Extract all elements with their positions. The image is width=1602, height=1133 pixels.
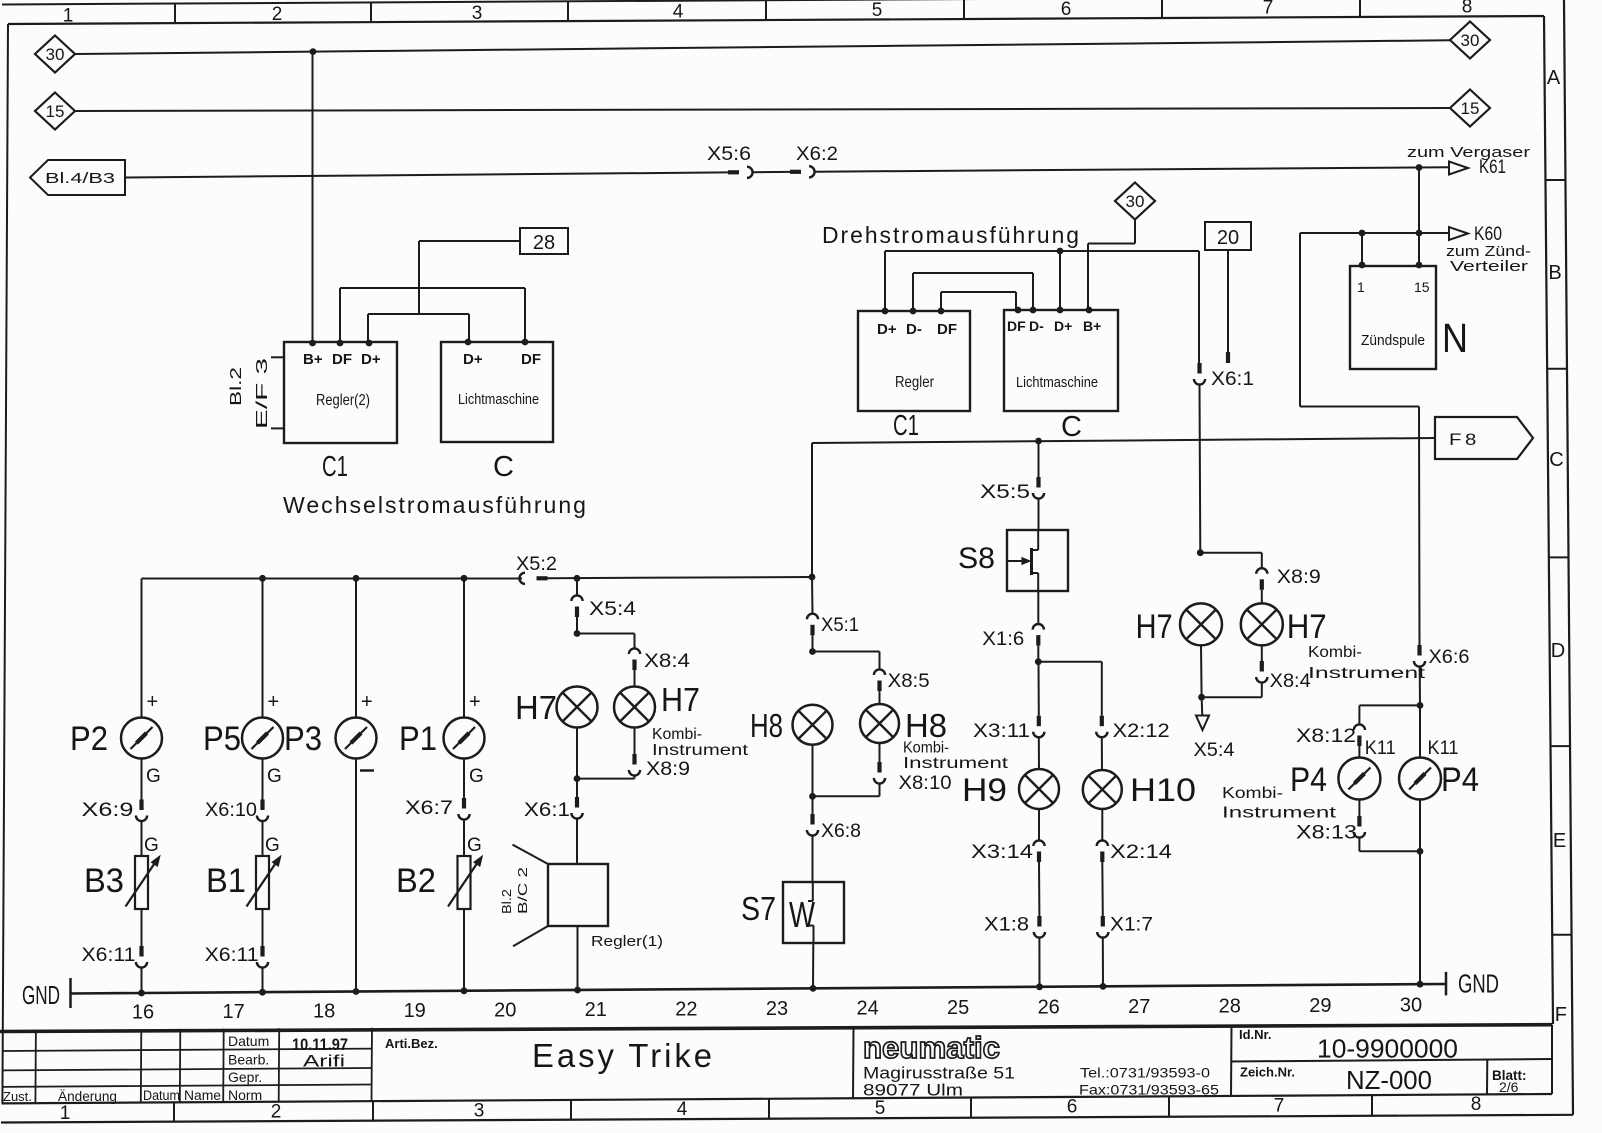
svg-text:F8: F8 bbox=[1449, 430, 1480, 449]
svg-text:X2:12: X2:12 bbox=[1113, 721, 1170, 742]
svg-text:Bl.2: Bl.2 bbox=[228, 367, 245, 406]
svg-text:7: 7 bbox=[1274, 1095, 1285, 1116]
svg-text:4: 4 bbox=[673, 2, 684, 23]
svg-text:X8:4: X8:4 bbox=[644, 651, 690, 672]
svg-text:Bearb.: Bearb. bbox=[228, 1052, 269, 1068]
svg-text:16: 16 bbox=[132, 1002, 154, 1024]
svg-text:19: 19 bbox=[404, 1000, 426, 1022]
svg-text:Instrument: Instrument bbox=[903, 755, 1009, 772]
svg-text:Zust.: Zust. bbox=[3, 1089, 32, 1104]
svg-text:X8:9: X8:9 bbox=[1277, 567, 1321, 588]
svg-text:H9: H9 bbox=[962, 772, 1007, 808]
svg-text:B2: B2 bbox=[396, 862, 436, 900]
svg-text:X8:10: X8:10 bbox=[899, 773, 952, 794]
svg-text:10-9900000: 10-9900000 bbox=[1317, 1034, 1458, 1064]
svg-text:X6:1: X6:1 bbox=[1211, 369, 1254, 390]
svg-text:D-: D- bbox=[1029, 318, 1044, 334]
svg-text:X6:2: X6:2 bbox=[796, 144, 838, 165]
svg-text:B3: B3 bbox=[84, 862, 124, 900]
svg-text:B/C 2: B/C 2 bbox=[515, 867, 530, 914]
svg-text:23: 23 bbox=[766, 998, 788, 1020]
svg-text:1: 1 bbox=[63, 6, 74, 27]
svg-text:26: 26 bbox=[1038, 997, 1060, 1019]
svg-text:G: G bbox=[144, 835, 159, 856]
svg-text:K60: K60 bbox=[1474, 224, 1502, 245]
svg-text:Zeich.Nr.: Zeich.Nr. bbox=[1240, 1065, 1295, 1080]
svg-text:DF: DF bbox=[937, 321, 957, 338]
svg-text:X6:7: X6:7 bbox=[405, 798, 453, 819]
svg-text:15: 15 bbox=[1461, 99, 1480, 118]
svg-text:Gepr.: Gepr. bbox=[228, 1069, 262, 1085]
svg-text:P4: P4 bbox=[1441, 761, 1479, 799]
svg-text:GND: GND bbox=[1458, 969, 1499, 999]
svg-text:B1: B1 bbox=[206, 862, 246, 900]
svg-text:Bl.4/B3: Bl.4/B3 bbox=[45, 170, 115, 187]
svg-text:X8:13: X8:13 bbox=[1296, 823, 1357, 844]
svg-text:5: 5 bbox=[872, 0, 883, 21]
svg-text:X8:12: X8:12 bbox=[1296, 726, 1356, 747]
svg-text:X8:5: X8:5 bbox=[888, 671, 930, 692]
svg-text:30: 30 bbox=[46, 45, 65, 64]
svg-text:X6:8: X6:8 bbox=[821, 821, 861, 842]
svg-text:29: 29 bbox=[1309, 995, 1331, 1017]
svg-text:28: 28 bbox=[533, 232, 555, 254]
svg-text:Id.Nr.: Id.Nr. bbox=[1239, 1027, 1272, 1042]
svg-text:D+: D+ bbox=[1054, 318, 1072, 334]
svg-text:Arti.Bez.: Arti.Bez. bbox=[385, 1036, 438, 1051]
svg-text:A: A bbox=[1547, 67, 1561, 89]
svg-text:X6:11: X6:11 bbox=[82, 945, 136, 966]
svg-text:3: 3 bbox=[472, 3, 483, 24]
svg-text:K11: K11 bbox=[1365, 738, 1396, 759]
svg-text:X5:4: X5:4 bbox=[589, 599, 637, 620]
svg-text:X6:6: X6:6 bbox=[1429, 647, 1470, 668]
svg-text:D+: D+ bbox=[361, 351, 381, 368]
svg-text:DF: DF bbox=[521, 351, 541, 368]
svg-text:Lichtmaschine: Lichtmaschine bbox=[1016, 374, 1098, 391]
svg-text:DF: DF bbox=[1007, 318, 1026, 334]
svg-text:6: 6 bbox=[1061, 0, 1072, 20]
svg-text:Norm: Norm bbox=[228, 1087, 262, 1103]
svg-text:Name: Name bbox=[184, 1087, 221, 1103]
svg-text:neumatic: neumatic bbox=[863, 1030, 1000, 1065]
svg-text:+: + bbox=[469, 691, 481, 713]
svg-text:P4: P4 bbox=[1290, 761, 1327, 799]
svg-text:Arifi: Arifi bbox=[303, 1052, 345, 1071]
svg-text:3: 3 bbox=[474, 1100, 485, 1121]
svg-text:C: C bbox=[1061, 411, 1082, 443]
svg-text:E: E bbox=[1553, 830, 1566, 852]
svg-text:B: B bbox=[1548, 262, 1561, 284]
svg-text:X8:4: X8:4 bbox=[1270, 671, 1311, 692]
svg-text:H7: H7 bbox=[1136, 608, 1173, 646]
svg-text:Kombi-: Kombi- bbox=[1222, 785, 1283, 802]
svg-text:H8: H8 bbox=[905, 707, 947, 744]
svg-text:X1:6: X1:6 bbox=[982, 629, 1024, 650]
svg-text:Änderung: Änderung bbox=[58, 1088, 117, 1104]
svg-text:D-: D- bbox=[906, 321, 922, 338]
svg-text:20: 20 bbox=[494, 1000, 516, 1022]
svg-text:P5: P5 bbox=[203, 720, 241, 758]
svg-text:Easy Trike: Easy Trike bbox=[532, 1037, 715, 1074]
svg-text:X3:11: X3:11 bbox=[973, 721, 1030, 742]
svg-text:G: G bbox=[265, 835, 280, 856]
svg-text:H7: H7 bbox=[661, 681, 700, 718]
svg-text:89077 Ulm: 89077 Ulm bbox=[863, 1082, 963, 1100]
svg-text:2: 2 bbox=[271, 1102, 282, 1123]
svg-text:D+: D+ bbox=[877, 321, 897, 338]
svg-text:S8: S8 bbox=[958, 542, 995, 575]
svg-text:X2:14: X2:14 bbox=[1110, 842, 1173, 863]
svg-text:Lichtmaschine: Lichtmaschine bbox=[458, 391, 539, 408]
svg-text:1: 1 bbox=[1357, 279, 1365, 295]
svg-text:X5:5: X5:5 bbox=[980, 482, 1030, 503]
svg-text:G: G bbox=[467, 835, 482, 856]
svg-text:P3: P3 bbox=[284, 720, 322, 758]
svg-text:X5:4: X5:4 bbox=[1194, 740, 1235, 761]
svg-text:D: D bbox=[1551, 640, 1565, 662]
svg-text:G: G bbox=[469, 766, 484, 787]
svg-text:28: 28 bbox=[1219, 996, 1241, 1018]
svg-text:X6:1: X6:1 bbox=[524, 800, 570, 821]
svg-text:24: 24 bbox=[856, 998, 878, 1020]
svg-text:zum Vergaser: zum Vergaser bbox=[1407, 144, 1530, 161]
svg-text:H8: H8 bbox=[750, 707, 783, 744]
svg-text:G: G bbox=[146, 766, 161, 787]
svg-text:Fax:0731/93593-65: Fax:0731/93593-65 bbox=[1079, 1083, 1219, 1098]
svg-text:15: 15 bbox=[1414, 279, 1430, 295]
svg-text:Regler(2): Regler(2) bbox=[316, 392, 370, 409]
svg-text:2/6: 2/6 bbox=[1499, 1079, 1519, 1095]
svg-text:Instrument: Instrument bbox=[1308, 665, 1426, 682]
svg-text:X6:9: X6:9 bbox=[82, 800, 134, 821]
svg-text:Regler(1): Regler(1) bbox=[591, 933, 663, 950]
svg-text:4: 4 bbox=[677, 1099, 688, 1120]
svg-text:K61: K61 bbox=[1479, 157, 1506, 178]
svg-text:25: 25 bbox=[947, 997, 969, 1019]
svg-text:Regler: Regler bbox=[895, 374, 935, 391]
svg-text:X1:8: X1:8 bbox=[984, 915, 1029, 936]
svg-text:Tel.:0731/93593-0: Tel.:0731/93593-0 bbox=[1080, 1066, 1210, 1081]
svg-text:Drehstromausführung: Drehstromausführung bbox=[822, 222, 1081, 248]
svg-text:X5:1: X5:1 bbox=[821, 615, 859, 636]
svg-text:17: 17 bbox=[222, 1001, 244, 1023]
svg-text:8: 8 bbox=[1462, 0, 1473, 17]
svg-text:X1:7: X1:7 bbox=[1110, 915, 1153, 936]
svg-text:20: 20 bbox=[1217, 227, 1239, 249]
svg-text:Kombi-: Kombi- bbox=[1308, 644, 1362, 661]
svg-text:Kombi-: Kombi- bbox=[652, 726, 702, 743]
svg-text:+: + bbox=[361, 691, 373, 713]
svg-text:30: 30 bbox=[1400, 995, 1422, 1017]
svg-text:Instrument: Instrument bbox=[652, 742, 749, 759]
svg-text:D+: D+ bbox=[463, 351, 483, 368]
svg-text:B+: B+ bbox=[1083, 318, 1101, 334]
svg-text:Zündspule: Zündspule bbox=[1361, 332, 1425, 349]
svg-text:H10: H10 bbox=[1130, 772, 1196, 808]
svg-text:2: 2 bbox=[272, 4, 283, 25]
svg-text:P1: P1 bbox=[399, 720, 437, 758]
svg-text:30: 30 bbox=[1126, 192, 1145, 211]
svg-text:X3:14: X3:14 bbox=[971, 842, 1034, 863]
svg-text:C: C bbox=[493, 451, 514, 483]
svg-text:18: 18 bbox=[313, 1001, 335, 1023]
svg-text:H7: H7 bbox=[515, 689, 557, 726]
svg-text:K11: K11 bbox=[1428, 738, 1459, 759]
svg-text:H7: H7 bbox=[1287, 608, 1327, 646]
svg-text:1: 1 bbox=[60, 1103, 71, 1124]
svg-text:Magirusstraße 51: Magirusstraße 51 bbox=[863, 1065, 1015, 1083]
svg-text:Datum: Datum bbox=[143, 1087, 180, 1103]
svg-text:C1: C1 bbox=[893, 410, 919, 442]
svg-text:22: 22 bbox=[675, 999, 697, 1021]
svg-text:Wechselstromausführung: Wechselstromausführung bbox=[283, 492, 588, 518]
svg-text:GND: GND bbox=[22, 980, 60, 1010]
svg-text:E/F 3: E/F 3 bbox=[254, 358, 271, 429]
svg-text:F: F bbox=[1555, 1004, 1567, 1026]
svg-text:27: 27 bbox=[1128, 996, 1150, 1018]
svg-text:7: 7 bbox=[1263, 0, 1274, 19]
svg-text:Instrument: Instrument bbox=[1222, 805, 1337, 822]
svg-text:C: C bbox=[1549, 449, 1563, 471]
svg-text:Bl.2: Bl.2 bbox=[499, 889, 514, 914]
svg-text:DF: DF bbox=[332, 351, 352, 368]
svg-text:X8:9: X8:9 bbox=[646, 759, 690, 780]
svg-text:N: N bbox=[1442, 315, 1468, 361]
svg-text:Datum: Datum bbox=[228, 1033, 269, 1049]
svg-text:P2: P2 bbox=[70, 720, 108, 758]
svg-text:X6:11: X6:11 bbox=[205, 945, 259, 966]
svg-text:C1: C1 bbox=[322, 451, 348, 483]
svg-text:X5:2: X5:2 bbox=[516, 554, 557, 575]
svg-text:B+: B+ bbox=[303, 351, 323, 368]
svg-text:Kombi-: Kombi- bbox=[903, 740, 949, 757]
svg-text:S7: S7 bbox=[741, 890, 776, 927]
svg-text:8: 8 bbox=[1471, 1094, 1482, 1115]
svg-text:Verteiler: Verteiler bbox=[1450, 258, 1528, 275]
svg-text:+: + bbox=[147, 691, 159, 713]
svg-text:NZ-000: NZ-000 bbox=[1346, 1065, 1432, 1095]
svg-text:6: 6 bbox=[1067, 1097, 1078, 1118]
svg-text:21: 21 bbox=[585, 999, 607, 1021]
svg-text:G: G bbox=[267, 766, 282, 787]
svg-text:30: 30 bbox=[1461, 31, 1480, 50]
svg-text:15: 15 bbox=[46, 102, 65, 121]
svg-text:X5:6: X5:6 bbox=[707, 144, 751, 165]
svg-text:+: + bbox=[268, 691, 280, 713]
svg-text:5: 5 bbox=[875, 1098, 886, 1119]
svg-text:X6:10: X6:10 bbox=[205, 800, 257, 821]
